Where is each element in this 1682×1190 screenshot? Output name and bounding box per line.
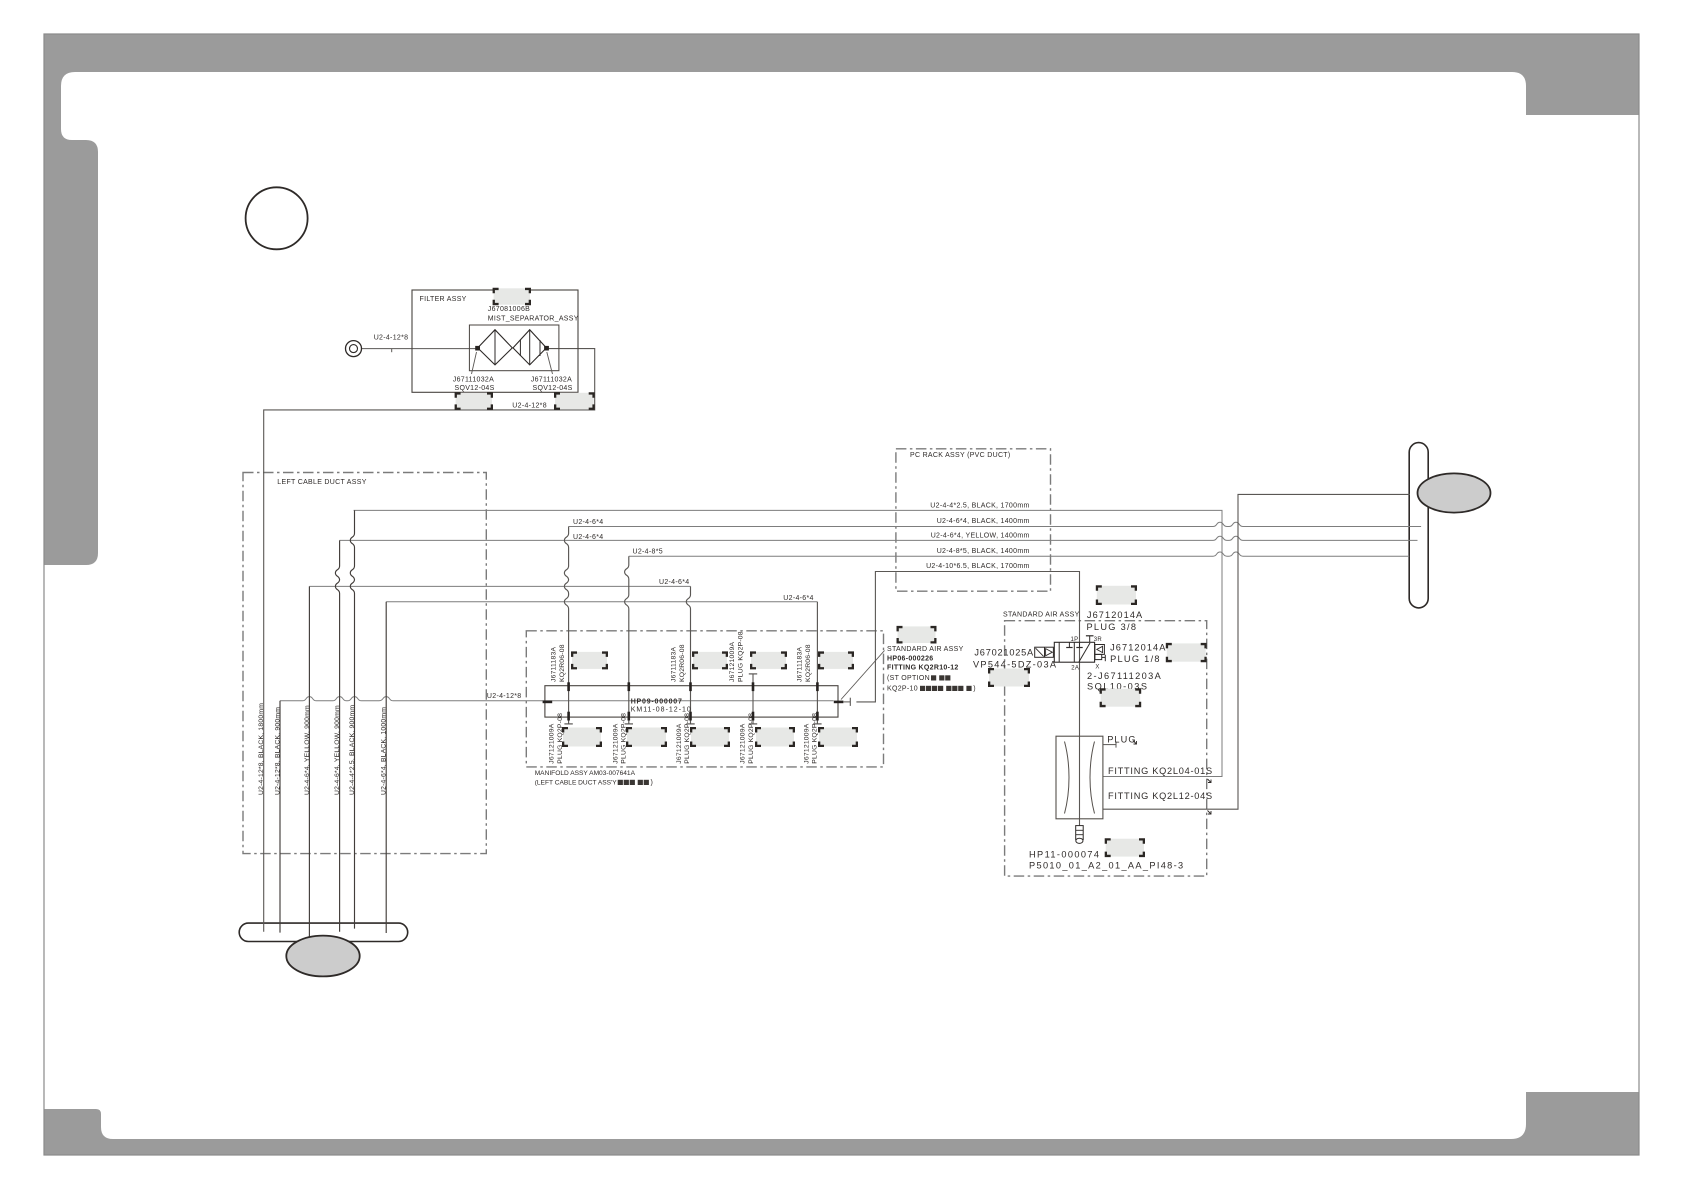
svg-text:J67121009A: J67121009A [676, 723, 683, 763]
svg-text:HP06-000226: HP06-000226 [887, 656, 934, 663]
svg-text:PLUG KQ2P-08: PLUG KQ2P-08 [812, 713, 819, 764]
svg-text:SQV12-04S: SQV12-04S [455, 385, 495, 392]
svg-text:U2-4-4*2.5, BLACK, 1700mm: U2-4-4*2.5, BLACK, 1700mm [930, 503, 1029, 510]
LEFT CABLE DUCT ASSY dashed box [243, 473, 486, 854]
manifold inner solid box HP09-000007 [545, 686, 838, 717]
svg-text:U2-4-12*8, BLACK, 900mm: U2-4-12*8, BLACK, 900mm [275, 707, 282, 795]
wire: line1 U2-4-4*2.5 to regulator [354, 510, 1222, 776]
solenoid valve VP544-5DZ-03A [1035, 647, 1054, 657]
svg-text:FITTING KQ2R10-12: FITTING KQ2R10-12 [887, 665, 959, 672]
valve 1P port stubs [1068, 642, 1070, 647]
svg-text:KM11-08-12-10: KM11-08-12-10 [631, 707, 692, 714]
J6712014A plug 1/8 connector [1166, 643, 1207, 662]
svg-text:U2-4-6*4: U2-4-6*4 [573, 519, 603, 526]
svg-text:(ST OPTION: (ST OPTION [887, 675, 930, 682]
svg-text:(LEFT CABLE DUCT ASS'Y: (LEFT CABLE DUCT ASS'Y [535, 780, 618, 787]
SQV12-04S left connector [455, 392, 493, 410]
bottom gray ellipse [286, 936, 359, 977]
bottom duct exit capsule [239, 923, 408, 941]
inlet double circle [346, 341, 362, 357]
svg-text:STANDARD AIR ASSY: STANDARD AIR ASSY [1003, 612, 1080, 619]
svg-text:U2-4-6*4, BLACK, 1400mm: U2-4-6*4, BLACK, 1400mm [937, 518, 1030, 525]
svg-text:U2-4-6*4, YELLOW, 1400mm: U2-4-6*4, YELLOW, 1400mm [931, 533, 1030, 540]
wire: line2 U2-4-6*4 black [569, 522, 1422, 526]
svg-text:U2-4-6*4, YELLOW, 900mm: U2-4-6*4, YELLOW, 900mm [334, 705, 341, 795]
svg-text:HP11-000074: HP11-000074 [1029, 850, 1100, 860]
right machine capsule [1409, 443, 1428, 608]
manifold column 1 [564, 527, 568, 724]
svg-text:J67121009A: J67121009A [729, 642, 736, 682]
small flow arrows [1133, 741, 1137, 745]
wire: main supply manifold-valve riser [856, 572, 1079, 826]
PLUG KQ2P-08 bottom 4 [755, 727, 795, 747]
svg-text:U2-4-6*4: U2-4-6*4 [659, 579, 689, 586]
svg-text:2-J67111203A: 2-J67111203A [1087, 671, 1162, 681]
HP11 connector [1105, 838, 1145, 857]
PLUG KQ2P-08 bottom 5 [818, 727, 858, 747]
svg-text:U2-4-8*5: U2-4-8*5 [633, 549, 663, 556]
svg-text:J6711183A: J6711183A [797, 647, 804, 682]
svg-text:PLUG 3/8: PLUG 3/8 [1087, 622, 1138, 632]
VP544 connector [988, 668, 1030, 687]
svg-text:J67121009A: J67121009A [613, 723, 620, 763]
svg-text:U2-4-10*6.5, BLACK, 1700mm: U2-4-10*6.5, BLACK, 1700mm [926, 563, 1030, 570]
KQ2R06-08 top 2 [692, 651, 728, 669]
svg-text:J67121009A: J67121009A [549, 723, 556, 763]
manifold column 2 [625, 556, 629, 724]
svg-text:PLUG KQ2P-08: PLUG KQ2P-08 [557, 713, 564, 764]
svg-text:KQ2P-10: KQ2P-10 [887, 686, 918, 693]
svg-text:J67111032A: J67111032A [453, 377, 494, 384]
wire: U2-4-12*8 manifold feed line [280, 697, 834, 701]
svg-text:PLUG KQ2P-08: PLUG KQ2P-08 [748, 713, 755, 764]
svg-text:VP544-5DZ-03A: VP544-5DZ-03A [973, 660, 1057, 670]
PC RACK ASSY dashed box [896, 449, 1051, 591]
svg-text:MANIFOLD ASSY AM03-007641A: MANIFOLD ASSY AM03-007641A [535, 770, 636, 777]
KQ2R06-08 top 4 [818, 651, 854, 669]
right gray ellipse [1418, 473, 1491, 512]
svg-text:PLUG 1/8: PLUG 1/8 [1110, 654, 1161, 664]
svg-text:J6711183A: J6711183A [551, 647, 558, 682]
page frame: top+left gray band [44, 34, 1639, 565]
manifold port ticks top edge [567, 682, 570, 691]
svg-text:PLUG KQ2P-08: PLUG KQ2P-08 [684, 713, 691, 764]
wire: line7 U2-4-6*4 [386, 601, 817, 603]
svg-text:U2-4-6*4, BLACK, 1000mm: U2-4-6*4, BLACK, 1000mm [381, 707, 388, 795]
mist separator box [469, 325, 559, 371]
PLUG KQ2P-08 bottom 3 [690, 727, 730, 747]
standard air connector [897, 626, 937, 644]
FILTER ASSY box [412, 290, 578, 392]
svg-text:X: X [1095, 664, 1099, 670]
valve 3R port [1089, 636, 1091, 643]
svg-text:3R: 3R [1094, 637, 1103, 643]
svg-text:FITTING KQ2L12-04S: FITTING KQ2L12-04S [1108, 791, 1213, 801]
PLUG stub [1103, 744, 1116, 746]
valve internal path [1079, 643, 1090, 662]
J6712014A plug 3/8 connector [1096, 585, 1137, 605]
PLUG KQ2P-08 bottom 1 [562, 727, 602, 747]
manifold feed ticks left/right [543, 701, 553, 704]
filter diamond right [513, 330, 546, 365]
manifold column T-bar terminators [564, 723, 572, 725]
valve X port cell [1095, 654, 1102, 659]
svg-text:J67081006B: J67081006B [488, 306, 530, 313]
label leader lines [472, 352, 477, 374]
filter regulator unit [1056, 736, 1103, 819]
SQV12-04S right connector [554, 392, 595, 410]
duct column C [308, 586, 310, 936]
svg-text:U2-4-12*8: U2-4-12*8 [487, 693, 522, 700]
duct column D [385, 602, 387, 933]
standard air assy note block [841, 651, 885, 700]
svg-text:MIST_SEPARATOR_ASSY: MIST_SEPARATOR_ASSY [488, 316, 579, 323]
svg-text:): ) [973, 686, 976, 693]
valve exhaust box [1095, 645, 1105, 655]
svg-text:KQ2R06-08: KQ2R06-08 [805, 644, 812, 682]
svg-text:SQV12-04S: SQV12-04S [533, 385, 573, 392]
wire: filter inlet [362, 348, 478, 350]
svg-text:U2-4-12*8: U2-4-12*8 [374, 335, 409, 342]
J67081006B connector [493, 288, 531, 305]
svg-text:FITTING KQ2L04-01S: FITTING KQ2L04-01S [1108, 766, 1213, 776]
svg-text:PLUG KQ2P-08: PLUG KQ2P-08 [738, 631, 745, 682]
svg-text:STANDARD AIR ASSY: STANDARD AIR ASSY [887, 646, 964, 653]
svg-text:U2-4-6*4: U2-4-6*4 [573, 534, 603, 541]
filter diamond left [478, 330, 513, 365]
STANDARD AIR ASSY dashed box [1005, 621, 1207, 876]
svg-text:KQ2R06-08: KQ2R06-08 [559, 644, 566, 682]
manifold port ticks bottom edge [567, 712, 570, 721]
svg-text:J67021025A: J67021025A [974, 648, 1034, 658]
wire: mist separator out, down and left to duct, down to capsule [264, 349, 595, 932]
svg-text:P5010_01_A2_01_AA_PI48-3: P5010_01_A2_01_AA_PI48-3 [1029, 861, 1185, 871]
diamond port marks [475, 346, 480, 351]
KQ2R06-08 top 1 [571, 651, 608, 669]
manifold column 4 stub [752, 674, 754, 724]
silencer [1076, 826, 1084, 840]
svg-text:): ) [651, 780, 654, 787]
svg-text:J67121009A: J67121009A [804, 723, 811, 763]
PLUG KQ2P-08 bottom 2 [626, 727, 667, 747]
wire: line3 U2-4-6*4 yellow [340, 536, 1418, 540]
svg-text:U2-4-12*8, BLACK, 1800mm: U2-4-12*8, BLACK, 1800mm [258, 703, 265, 795]
wire: duct column 280 down to capsule [279, 701, 281, 933]
svg-text:J67111032A: J67111032A [531, 377, 572, 384]
svg-text:2A: 2A [1071, 665, 1079, 671]
reference circle [246, 187, 308, 249]
manifold column 5 [816, 602, 818, 724]
svg-text:J6711183A: J6711183A [671, 647, 678, 682]
PLUG KQ2P-08 top 3 [750, 651, 787, 669]
svg-text:FILTER ASSY: FILTER ASSY [420, 296, 467, 303]
svg-text:PLUG: PLUG [1107, 735, 1136, 745]
svg-text:U2-4-4*2.5, BLACK, 900mm: U2-4-4*2.5, BLACK, 900mm [349, 705, 356, 795]
svg-text:J67121009A: J67121009A [740, 723, 747, 763]
svg-text:J6712014A: J6712014A [1110, 643, 1166, 653]
svg-text:U2-4-6*4, YELLOW, 900mm: U2-4-6*4, YELLOW, 900mm [304, 705, 311, 795]
svg-text:PC RACK ASSY (PVC DUCT): PC RACK ASSY (PVC DUCT) [910, 452, 1011, 459]
svg-text:1P: 1P [1071, 637, 1079, 643]
svg-text:KQ2R06-08: KQ2R06-08 [679, 644, 686, 682]
svg-text:PLUG KQ2P-08: PLUG KQ2P-08 [621, 713, 628, 764]
MANIFOLD ASSY dashed box [526, 631, 883, 767]
svg-text:LEFT CABLE DUCT ASSY: LEFT CABLE DUCT ASSY [277, 479, 366, 486]
svg-text:U2-4-8*5, BLACK, 1400mm: U2-4-8*5, BLACK, 1400mm [937, 548, 1030, 555]
svg-text:U2-4-6*4: U2-4-6*4 [783, 595, 813, 602]
wire: manifold feed terminator segment [844, 701, 851, 703]
duct column B [335, 540, 339, 931]
SQL10-03S connector [1100, 688, 1142, 707]
wire: line4 U2-4-8*5 [629, 552, 1409, 556]
duct column A [350, 510, 354, 928]
svg-text:J6712014A: J6712014A [1087, 610, 1143, 620]
manifold column 3 [686, 586, 690, 724]
svg-text:HP09-000007: HP09-000007 [631, 699, 683, 706]
wire: regulator out to machine capsule [1103, 494, 1410, 809]
wire: line6 U2-4-6*4 [309, 585, 690, 587]
page frame: bottom gray band [44, 1092, 1639, 1155]
svg-text:U2-4-12*8: U2-4-12*8 [512, 403, 547, 410]
